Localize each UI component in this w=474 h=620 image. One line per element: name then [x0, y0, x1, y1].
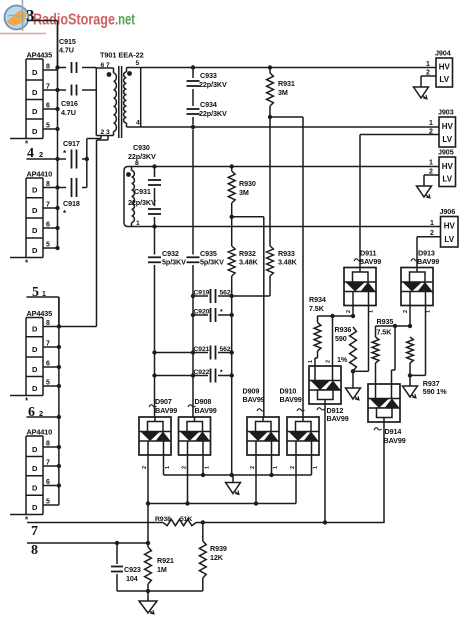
wire C930-C931 column: [154, 167, 156, 227]
transformer T901 primary winding: [114, 73, 117, 132]
IC U4 AP4410 asterisk: [25, 259, 29, 268]
capacitor C921: [211, 346, 216, 360]
resistor R937: [407, 337, 414, 363]
label D907: [155, 397, 172, 406]
pin1 label D913: [426, 310, 432, 313]
svg-text:2: 2: [326, 360, 332, 363]
asterisk C922: [220, 370, 223, 377]
pin1 label D912: [308, 360, 314, 363]
label R931: [278, 79, 295, 88]
pin2 label D911: [346, 310, 352, 313]
diode D911 BAV99: [344, 268, 376, 306]
wire xfmr pin3 to net5 bus: [59, 136, 108, 327]
svg-text:D914: D914: [385, 427, 402, 436]
svg-text:562: 562: [220, 346, 231, 353]
junction bus1 y=67.5: [55, 65, 59, 69]
label C920: [194, 309, 210, 316]
svg-text:BAV99: BAV99: [195, 406, 217, 415]
label C921: [194, 346, 210, 353]
IC U5 AP4435 asterisk: [25, 397, 29, 406]
svg-text:D: D: [32, 107, 38, 116]
svg-text:22p/3KV: 22p/3KV: [199, 109, 227, 118]
junction rail D909 pin1: [269, 473, 273, 477]
svg-text:7.5K: 7.5K: [309, 304, 325, 313]
label R932: [239, 249, 256, 258]
svg-text:1: 1: [426, 310, 432, 313]
wire ground column x=231.7: [231, 296, 233, 475]
wire D911 pin2 to R936 bottom: [353, 306, 369, 372]
junction C920 left: [191, 313, 195, 317]
svg-text:1: 1: [430, 220, 434, 227]
wire D910 pin2 down: [295, 455, 297, 504]
svg-text:7: 7: [46, 341, 50, 348]
net label 5: [32, 285, 46, 300]
junction C921 right: [230, 350, 234, 354]
label C933 value: [199, 80, 227, 89]
label R939 value: [210, 553, 224, 562]
junction R931 top: [268, 65, 272, 69]
wire R937 junction to ground: [409, 375, 411, 386]
label C932 value: [162, 258, 186, 267]
wire R934 rail: [318, 315, 354, 317]
label D913 type: [417, 257, 439, 266]
IC U5 AP4435: [10, 309, 59, 396]
svg-text:5p/3KV: 5p/3KV: [200, 258, 224, 267]
wire R932 column: [231, 217, 233, 296]
svg-text:8: 8: [46, 64, 50, 71]
label R934 value: [309, 304, 325, 313]
svg-text:LV: LV: [442, 174, 452, 183]
phase dot lower winding: [126, 172, 131, 177]
svg-text:D: D: [32, 246, 38, 255]
wire xfmr pin2 jog: [87, 136, 101, 139]
junction R921 top: [146, 541, 150, 545]
svg-text:J905: J905: [438, 148, 454, 157]
wire R935 rail: [376, 325, 411, 327]
transformer core: [119, 66, 122, 138]
junction bus1 y=159: [55, 157, 59, 161]
svg-text:C919: C919: [194, 290, 210, 297]
svg-text:BAV99: BAV99: [243, 395, 265, 404]
svg-text:D: D: [32, 345, 38, 354]
label C931 value: [128, 198, 156, 207]
pin3 curl D912: [317, 408, 325, 410]
label C917: [63, 139, 80, 148]
ground under diode rail: [226, 482, 241, 495]
capacitor C919: [211, 289, 216, 303]
junction bus2 y=447: [57, 445, 61, 449]
net label 6: [28, 405, 43, 420]
label D909 type: [243, 395, 265, 404]
ground under R937: [403, 386, 418, 399]
label R933 value: [278, 258, 298, 267]
transformer T901 secondary outline: [127, 68, 141, 128]
pin3 curl D913: [411, 259, 419, 261]
phase dot secondary: [127, 71, 132, 76]
svg-text:R936: R936: [335, 325, 352, 334]
pin2 label D913: [403, 310, 409, 313]
resistor R935: [372, 337, 379, 363]
label R939: [210, 544, 227, 553]
svg-text:D: D: [32, 186, 38, 195]
svg-text:*: *: [220, 309, 223, 316]
svg-text:R938: R938: [155, 516, 171, 523]
junction bus1 y=208: [55, 206, 59, 210]
svg-text:BAV99: BAV99: [280, 395, 302, 404]
wire R935 bottom to D914: [375, 363, 377, 384]
svg-text:C918: C918: [63, 199, 80, 208]
diode D910 BAV99: [287, 417, 319, 455]
junction R939 top: [201, 520, 205, 524]
junction C921 left: [191, 350, 195, 354]
label R937 value: [423, 387, 447, 396]
wire C920 line: [193, 314, 232, 316]
connector J903: [439, 117, 456, 147]
svg-text:D: D: [32, 127, 38, 136]
junction bus1 y=129: [55, 127, 59, 131]
svg-text:2: 2: [182, 466, 188, 469]
label R935: [377, 317, 394, 326]
svg-text:LV: LV: [444, 235, 454, 244]
pin2 label D910: [290, 466, 296, 469]
pin 1 label lower winding: [136, 220, 140, 227]
label D911 type: [359, 257, 381, 266]
svg-text:1: 1: [429, 120, 433, 127]
junction R937 bottom: [408, 373, 412, 377]
svg-text:D908: D908: [195, 397, 212, 406]
wire C915 line: [58, 67, 97, 69]
junction bus2 y=367: [57, 365, 61, 369]
pin1 label D909: [273, 466, 279, 469]
label C934: [200, 100, 217, 109]
label C921 value: [220, 346, 231, 353]
wire R934 bottom to D912: [315, 351, 318, 366]
connector J903 name: [438, 108, 454, 117]
capacitor C920: [211, 308, 216, 322]
resistor R938: [163, 519, 196, 525]
wire R939 leads: [202, 523, 204, 592]
svg-text:2: 2: [290, 466, 296, 469]
label R932 value: [239, 258, 259, 267]
label D908 type: [195, 406, 217, 415]
label C930: [133, 143, 150, 152]
wire D912 pin2 column: [332, 316, 334, 366]
label C919 value: [220, 290, 231, 297]
label D912: [327, 406, 344, 415]
wire D914 common down: [383, 422, 385, 523]
pin1 label D908: [205, 466, 211, 469]
pin2 label D908: [182, 466, 188, 469]
wire C922 line: [155, 375, 232, 377]
svg-text:7: 7: [46, 202, 50, 209]
svg-text:6: 6: [46, 479, 50, 486]
pin 2 3 labels: [101, 129, 110, 136]
svg-text:LV: LV: [439, 75, 449, 84]
junction railB D908 pin2: [185, 501, 189, 505]
label T901 EEA-22: [100, 51, 144, 60]
label R938 value: [180, 516, 192, 523]
junction C930 top: [152, 164, 156, 168]
svg-text:7.5K: 7.5K: [377, 328, 393, 337]
junction railB D907 pin2: [146, 501, 150, 505]
svg-text:1: 1: [369, 310, 375, 313]
junction railB D909 pin2: [254, 501, 258, 505]
svg-text:3M: 3M: [278, 88, 288, 97]
svg-text:R930: R930: [239, 179, 256, 188]
junction R936 bottom: [351, 369, 355, 373]
svg-text:2: 2: [142, 466, 148, 469]
label D907 type: [155, 406, 177, 415]
svg-text:1: 1: [273, 466, 279, 469]
svg-text:AP4410: AP4410: [27, 170, 53, 179]
junction bus2 y=466: [57, 464, 61, 468]
capacitor C934: [187, 109, 200, 114]
svg-text:T901 EEA-22: T901 EEA-22: [100, 51, 144, 60]
wire R936 to ground: [352, 371, 354, 388]
wire R931 bottom lead: [269, 106, 271, 117]
wire D907 pin2 down: [147, 455, 149, 543]
svg-text:HV: HV: [442, 162, 454, 171]
junction rail-R936 x332.5: [330, 314, 334, 318]
svg-text:LV: LV: [442, 135, 452, 144]
svg-text:BAV99: BAV99: [384, 436, 406, 445]
svg-text:7: 7: [46, 84, 50, 91]
svg-text:4.7U: 4.7U: [59, 46, 74, 55]
label D910 type: [280, 395, 302, 404]
label C923 value: [126, 574, 138, 583]
asterisk C920: [220, 309, 223, 316]
pin3 curl D907: [149, 405, 157, 407]
wire D913 pin2 down: [410, 306, 426, 376]
label D914 type: [384, 436, 406, 445]
svg-text:22p/3KV: 22p/3KV: [128, 198, 156, 207]
svg-text:7: 7: [31, 524, 38, 539]
pin3 curl D914: [374, 428, 382, 430]
wire C916 line: [58, 89, 97, 91]
wire C923 column: [116, 543, 118, 591]
label D914: [385, 427, 402, 436]
capacitor C932: [148, 257, 161, 262]
wire D909 pin2 down: [255, 455, 257, 504]
IC U3 AP4435 (top): [10, 51, 58, 139]
svg-text:J906: J906: [440, 207, 456, 216]
junction bus2 y=417: [57, 415, 61, 419]
pin1 label D910: [313, 466, 319, 469]
net label 7: [31, 524, 38, 539]
svg-text:D: D: [32, 464, 38, 473]
pin1 label D907: [165, 466, 171, 469]
svg-text:5: 5: [46, 242, 50, 249]
svg-text:C920: C920: [194, 309, 210, 316]
svg-text:HV: HV: [444, 222, 456, 231]
svg-text:D: D: [32, 88, 38, 97]
label D908: [195, 397, 212, 406]
junction bus1 y=109: [55, 107, 59, 111]
wire D907 pin1 to gnd rail: [163, 455, 165, 475]
wire R930 junction to D909 column: [232, 217, 264, 417]
wire C932 column: [154, 227, 156, 418]
label R930: [239, 179, 256, 188]
wire D911 pin1 stub: [352, 306, 354, 317]
wire C917 line: [58, 139, 87, 188]
diode D913 BAV99: [401, 268, 433, 306]
svg-text:1: 1: [205, 466, 211, 469]
pin2 label D907: [142, 466, 148, 469]
junction C922 far-left: [152, 373, 156, 377]
net label 4: [27, 146, 43, 161]
label C915 value: [59, 46, 74, 55]
diode D908 BAV99: [179, 417, 211, 455]
wire R921 leads: [147, 543, 149, 591]
capacitor C931: [148, 209, 161, 214]
junction bus2 y=326.5: [57, 324, 61, 328]
wire J905 pin2 to ground: [424, 175, 439, 186]
svg-text:BAV99: BAV99: [155, 406, 177, 415]
wire C919 line: [193, 295, 232, 297]
label R936: [335, 325, 352, 334]
label C923: [124, 565, 141, 574]
label R931 value: [278, 88, 288, 97]
winding outline lower: [124, 167, 132, 227]
wire C933-C934 column: [192, 68, 194, 418]
junction C933 top: [191, 65, 195, 69]
junction C917 right: [85, 157, 89, 161]
svg-text:4: 4: [136, 120, 140, 127]
capacitor C933: [187, 81, 200, 86]
capacitor C915: [72, 62, 77, 73]
svg-text:8: 8: [46, 181, 50, 188]
svg-text:.net: .net: [115, 12, 135, 29]
pin2 label D909: [250, 466, 256, 469]
label R937: [423, 379, 440, 388]
label C918: [63, 199, 80, 208]
svg-text:5: 5: [46, 499, 50, 506]
svg-text:D: D: [32, 68, 38, 77]
junction D912 common: [323, 520, 327, 524]
page margin line: [22, 0, 24, 31]
svg-text:8: 8: [31, 543, 38, 558]
svg-text:6: 6: [46, 222, 50, 229]
wire net7 line right: [196, 522, 384, 525]
svg-text:D: D: [32, 226, 38, 235]
pin1 J905: [429, 160, 433, 167]
svg-text:D907: D907: [155, 397, 172, 406]
svg-text:C933: C933: [200, 71, 217, 80]
svg-text:R921: R921: [157, 556, 174, 565]
junction rail-D911 x353: [351, 314, 355, 318]
svg-text:5: 5: [46, 380, 50, 387]
pin2 J903: [429, 129, 433, 136]
resistor R931: [267, 73, 274, 106]
pin3 curl D911: [354, 259, 362, 261]
capacitor C930: [148, 180, 161, 185]
ground under J904: [414, 87, 429, 100]
junction C934 bottom: [191, 125, 195, 129]
winding lower scallops: [132, 171, 135, 223]
label R935 value: [377, 328, 393, 337]
svg-text:C917: C917: [63, 139, 80, 148]
wire net-3 to bus1: [27, 21, 58, 68]
net label 3: [26, 6, 35, 25]
pin3 curl D908: [188, 405, 196, 407]
transformer T901 primary outline: [96, 68, 113, 136]
resistor R939: [199, 541, 206, 578]
capacitor C918: [72, 178, 77, 197]
svg-text:D: D: [32, 484, 38, 493]
wire D908 pin1 to gnd rail: [202, 455, 204, 475]
label C919: [194, 290, 210, 297]
junction rail column2317: [230, 473, 234, 477]
wire J903 pin2 to D911: [360, 135, 439, 268]
svg-text:AP4435: AP4435: [27, 51, 53, 60]
svg-text:HV: HV: [442, 122, 454, 131]
wire net-4 line: [27, 158, 58, 160]
svg-text:8: 8: [46, 320, 50, 327]
label C934 value: [199, 109, 227, 118]
wire R931 top lead: [269, 68, 271, 74]
svg-text:J904: J904: [435, 49, 451, 58]
label C932: [162, 249, 179, 258]
svg-text:J903: J903: [438, 108, 454, 117]
wire R931 junction to D910 column: [270, 117, 303, 417]
wire D908 pin2 down: [187, 455, 189, 504]
wire rail to D914 pin2: [392, 326, 396, 384]
svg-text:1: 1: [308, 360, 314, 363]
pin3 curl D909: [257, 409, 265, 411]
svg-text:2: 2: [250, 466, 256, 469]
resistor R933: [267, 246, 274, 276]
svg-text:8: 8: [46, 441, 50, 448]
junction R930 bottom: [230, 215, 234, 219]
wire net7 line left: [27, 522, 163, 524]
wire bus1 vertical: [57, 21, 59, 249]
wire D912 common down: [324, 404, 326, 523]
junction rail x410: [408, 324, 412, 328]
junction bus2 y=347: [57, 345, 61, 349]
capacitor C916: [72, 85, 77, 96]
connector J904: [436, 58, 453, 87]
wire C921 line: [155, 352, 232, 354]
label C916: [61, 99, 78, 108]
svg-text:5: 5: [46, 123, 50, 130]
label C930 value: [128, 152, 156, 161]
wire HV top line to J904 pin1: [141, 67, 436, 69]
svg-text:590 1%: 590 1%: [423, 387, 447, 396]
svg-text:BAV99: BAV99: [417, 257, 439, 266]
svg-text:D: D: [32, 365, 38, 374]
junction R930 top: [230, 164, 234, 168]
svg-text:C934: C934: [200, 100, 217, 109]
svg-text:1: 1: [426, 61, 430, 68]
junction C919 right: [230, 294, 234, 298]
wire bus2 vertical: [58, 297, 60, 505]
wire R933 leads: [232, 246, 270, 296]
label D913: [418, 249, 435, 258]
svg-text:R939: R939: [210, 544, 227, 553]
wire D913 pin1 stub: [409, 306, 411, 327]
connector J905 name: [438, 148, 454, 157]
label R936 value: [335, 334, 347, 343]
connector J904 name: [435, 49, 451, 58]
wire ground rail y=475: [164, 474, 312, 476]
label C931: [134, 187, 151, 196]
svg-text:R934: R934: [309, 295, 326, 304]
connector J905: [439, 157, 456, 187]
ground bottom: [139, 601, 157, 615]
label D912 type: [327, 414, 349, 423]
label D909: [243, 387, 260, 396]
label C915: [59, 37, 76, 46]
